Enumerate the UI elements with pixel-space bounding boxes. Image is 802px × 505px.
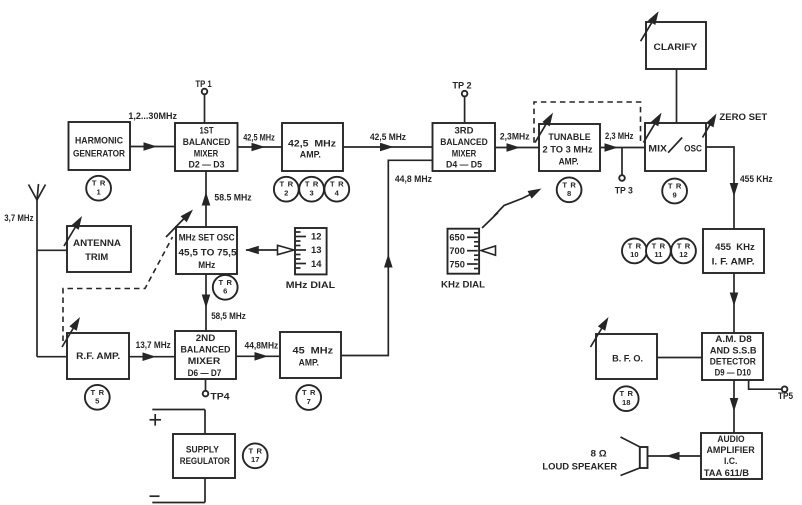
svg-text:2,3 MHz: 2,3 MHz (605, 131, 634, 141)
wire 2nd mixer to 45 MHz amp (236, 352, 280, 361)
svg-text:SUPPLY: SUPPLY (186, 444, 219, 454)
svg-text:TRIM: TRIM (85, 252, 108, 262)
svg-text:44,8MHz: 44,8MHz (245, 341, 279, 351)
svg-text:10: 10 (630, 250, 638, 259)
svg-text:455 KHz: 455 KHz (715, 242, 755, 252)
svg-text:MIXER: MIXER (194, 148, 219, 158)
KHz dial link arrow to tunable amp (482, 185, 544, 228)
B.F.O. block (596, 334, 657, 379)
svg-text:B. F. O.: B. F. O. (612, 354, 643, 364)
svg-text:OSC: OSC (684, 144, 702, 154)
svg-text:KHz DIAL: KHz DIAL (441, 280, 486, 290)
svg-text:BALANCED: BALANCED (183, 137, 231, 147)
transistor marker TR1 (86, 176, 111, 201)
svg-text:GENERATOR: GENERATOR (73, 149, 125, 159)
svg-text:8 Ω: 8 Ω (591, 448, 607, 458)
45 MHz amplifier block (280, 332, 341, 378)
wire 42,5 amp to 3rd mixer (343, 143, 433, 152)
svg-text:58.5 MHz: 58.5 MHz (214, 193, 252, 203)
svg-text:DETECTOR: DETECTOR (710, 356, 756, 366)
svg-text:3: 3 (309, 189, 313, 198)
svg-text:750: 750 (449, 259, 465, 269)
transistor marker TR6 (213, 275, 238, 300)
svg-text:45,5 TO 75,5: 45,5 TO 75,5 (179, 248, 237, 258)
svg-text:8: 8 (567, 189, 571, 198)
svg-text:1,2...30MHz: 1,2...30MHz (128, 111, 177, 121)
svg-text:AMPLIFIER: AMPLIFIER (706, 445, 755, 455)
supply minus terminal (150, 478, 206, 503)
svg-text:TP 1: TP 1 (195, 79, 211, 89)
3rd balanced mixer D4-D5 block (433, 123, 496, 171)
svg-text:12: 12 (679, 250, 687, 259)
svg-text:R.F. AMP.: R.F. AMP. (76, 351, 120, 361)
wire 3rd mixer to tunable amp (495, 143, 539, 152)
svg-text:7: 7 (307, 397, 311, 406)
MHz dial pointer arrow to MHz set osc (245, 245, 294, 254)
supply plus terminal (150, 410, 206, 435)
42,5 MHz amplifier block (282, 123, 343, 171)
wire I.F. amp to detector (730, 273, 739, 333)
1st balanced mixer D2-D3 block (175, 123, 238, 171)
455 KHz I.F. amplifier block (703, 229, 764, 273)
antenna trim block (67, 226, 131, 272)
svg-text:13: 13 (311, 245, 322, 255)
svg-text:I. F. AMP.: I. F. AMP. (712, 256, 755, 266)
svg-text:2ND: 2ND (196, 333, 216, 343)
clarify control block (646, 22, 706, 69)
wire antenna to antenna trim (37, 249, 67, 251)
svg-text:2 TO 3 MHz: 2 TO 3 MHz (543, 145, 593, 155)
harmonic generator block (69, 122, 131, 170)
svg-text:BALANCED: BALANCED (440, 137, 488, 147)
svg-text:ZERO SET: ZERO SET (719, 112, 767, 122)
A.M. and S.S.B detector D9-D10 block (702, 333, 763, 380)
loudspeaker symbol (621, 437, 648, 476)
svg-text:3RD: 3RD (455, 126, 474, 136)
tuning arrow on B.F.O. (591, 315, 613, 347)
svg-text:BALANCED: BALANCED (181, 345, 231, 355)
audio amplifier I.C. block (701, 433, 762, 479)
wire B.F.O. to detector (657, 357, 702, 359)
wire detector to audio amplifier (730, 380, 739, 433)
tuning arrow on MHz set osc (166, 207, 196, 237)
svg-text:AMP.: AMP. (299, 358, 319, 368)
wire tunable amp to mix/osc (600, 143, 645, 152)
test point TP4 (203, 379, 230, 402)
svg-text:TAA 611/B: TAA 611/B (704, 468, 750, 478)
svg-text:TP4: TP4 (210, 392, 229, 402)
svg-text:18: 18 (622, 398, 630, 407)
transistor marker TR10 (622, 239, 647, 264)
svg-text:D2 — D3: D2 — D3 (189, 159, 225, 169)
svg-text:45 MHz: 45 MHz (293, 345, 334, 355)
wire R.F. amp to 2nd mixer (129, 352, 175, 361)
svg-text:455 KHz: 455 KHz (740, 174, 773, 184)
tuning arrow on mix/osc (644, 110, 666, 142)
svg-text:D9 — D10: D9 — D10 (715, 367, 751, 377)
2nd balanced mixer D6-D7 block (175, 331, 236, 379)
svg-text:AUDIO: AUDIO (717, 434, 744, 444)
svg-text:650: 650 (449, 233, 465, 243)
mixer/oscillator block (645, 123, 706, 171)
zero set arrow and label (703, 111, 768, 137)
svg-text:AMP.: AMP. (559, 157, 579, 167)
svg-text:CLARIFY: CLARIFY (654, 42, 698, 52)
transistor marker TR8 (557, 177, 582, 202)
svg-text:MIX: MIX (648, 144, 667, 154)
transistor marker TR18 (614, 386, 639, 411)
svg-text:58,5 MHz: 58,5 MHz (211, 311, 246, 321)
svg-text:REGULATOR: REGULATOR (180, 456, 230, 466)
svg-text:AMP.: AMP. (300, 149, 321, 159)
test point TP5 (749, 380, 793, 401)
svg-text:700: 700 (449, 246, 465, 256)
transistor marker TR3 (299, 177, 324, 202)
svg-text:14: 14 (311, 259, 322, 269)
svg-text:44,8 MHz: 44,8 MHz (395, 174, 433, 184)
test point TP1 (195, 79, 211, 123)
svg-text:AND S.S.B: AND S.S.B (710, 345, 757, 355)
transistor marker TR12 (671, 239, 696, 264)
tuning arrow on R.F. amp (62, 315, 84, 347)
svg-text:ANTENNA: ANTENNA (73, 238, 121, 248)
svg-text:MIXER: MIXER (452, 148, 477, 158)
svg-text:TP 3: TP 3 (615, 185, 633, 195)
svg-text:17: 17 (251, 455, 259, 464)
tuning arrow on clarify (641, 9, 663, 41)
svg-text:I.C.: I.C. (724, 456, 738, 466)
transistor marker TR7 (296, 385, 321, 410)
transistor marker TR5 (85, 385, 110, 410)
tuning arrow on tunable amp (535, 110, 557, 142)
svg-text:2: 2 (284, 189, 288, 198)
R.F. amplifier block (67, 333, 129, 379)
svg-text:2,3MHz: 2,3MHz (500, 132, 530, 142)
dashed gang line tunable amp to mix/osc (534, 102, 641, 143)
svg-text:42,5 MHz: 42,5 MHz (288, 138, 336, 148)
wire 1st mixer to 42,5 amp (238, 143, 283, 152)
KHz dial pointer (481, 246, 496, 255)
KHz dial scale (448, 229, 480, 274)
svg-text:MIXER: MIXER (188, 356, 221, 366)
svg-text:TUNABLE: TUNABLE (548, 132, 590, 142)
wire harmonic generator to 1st mixer (130, 142, 175, 151)
svg-text:TP 2: TP 2 (452, 81, 471, 91)
tunable 2 to 3 MHz amplifier block (539, 124, 600, 171)
transistor marker TR4 (324, 177, 349, 202)
svg-text:42,5 MHz: 42,5 MHz (370, 132, 406, 142)
wire audio amplifier to loudspeaker (648, 452, 702, 461)
svg-text:MHz: MHz (198, 260, 215, 270)
wire 45 MHz amp up to 3rd mixer (44,8 MHz riser) (341, 160, 433, 355)
wire mix/osc to 455 KHz I.F. amp (706, 147, 738, 229)
svg-text:D6 — D7: D6 — D7 (188, 368, 222, 378)
svg-text:9: 9 (672, 190, 676, 199)
svg-text:13,7 MHz: 13,7 MHz (136, 340, 172, 350)
transistor marker TR9 (662, 179, 687, 204)
svg-text:MHz SET OSC: MHz SET OSC (179, 233, 235, 243)
svg-text:LOUD SPEAKER: LOUD SPEAKER (542, 462, 617, 472)
transistor marker TR17 (243, 443, 268, 468)
test point TP2 (452, 81, 471, 123)
wire MHz set osc down to 2nd mixer (58,5 MHz) (202, 274, 211, 331)
supply regulator block (173, 434, 235, 478)
wire antenna to R.F. amp (37, 356, 67, 358)
dashed gang line R.F. amp / antenna trim / MHz set osc (63, 237, 173, 341)
wire MHz set osc up to 1st mixer (58.5 MHz) (202, 171, 211, 227)
svg-text:MHz DIAL: MHz DIAL (286, 280, 336, 290)
svg-text:1ST: 1ST (200, 126, 214, 136)
label 8 ohm loudspeaker (542, 448, 617, 471)
svg-text:HARMONIC: HARMONIC (75, 136, 123, 146)
svg-text:TP5: TP5 (778, 391, 793, 401)
wire clarify to mix/osc (676, 69, 678, 123)
MHz dial scale (295, 228, 327, 274)
transistor marker TR2 (274, 177, 299, 202)
svg-text:3,7 MHz: 3,7 MHz (4, 213, 34, 223)
test point TP3 (615, 148, 633, 196)
transistor marker TR11 (646, 239, 671, 264)
svg-text:12: 12 (311, 232, 322, 242)
svg-text:42,5 MHz: 42,5 MHz (243, 132, 275, 142)
tuning arrow on antenna trim (64, 214, 86, 246)
MHz set oscillator block (176, 227, 237, 274)
svg-text:6: 6 (223, 287, 227, 296)
antenna symbol (29, 184, 46, 357)
svg-text:D4 — D5: D4 — D5 (446, 159, 482, 169)
svg-text:11: 11 (654, 250, 663, 259)
svg-text:A.M. D8: A.M. D8 (715, 334, 752, 344)
